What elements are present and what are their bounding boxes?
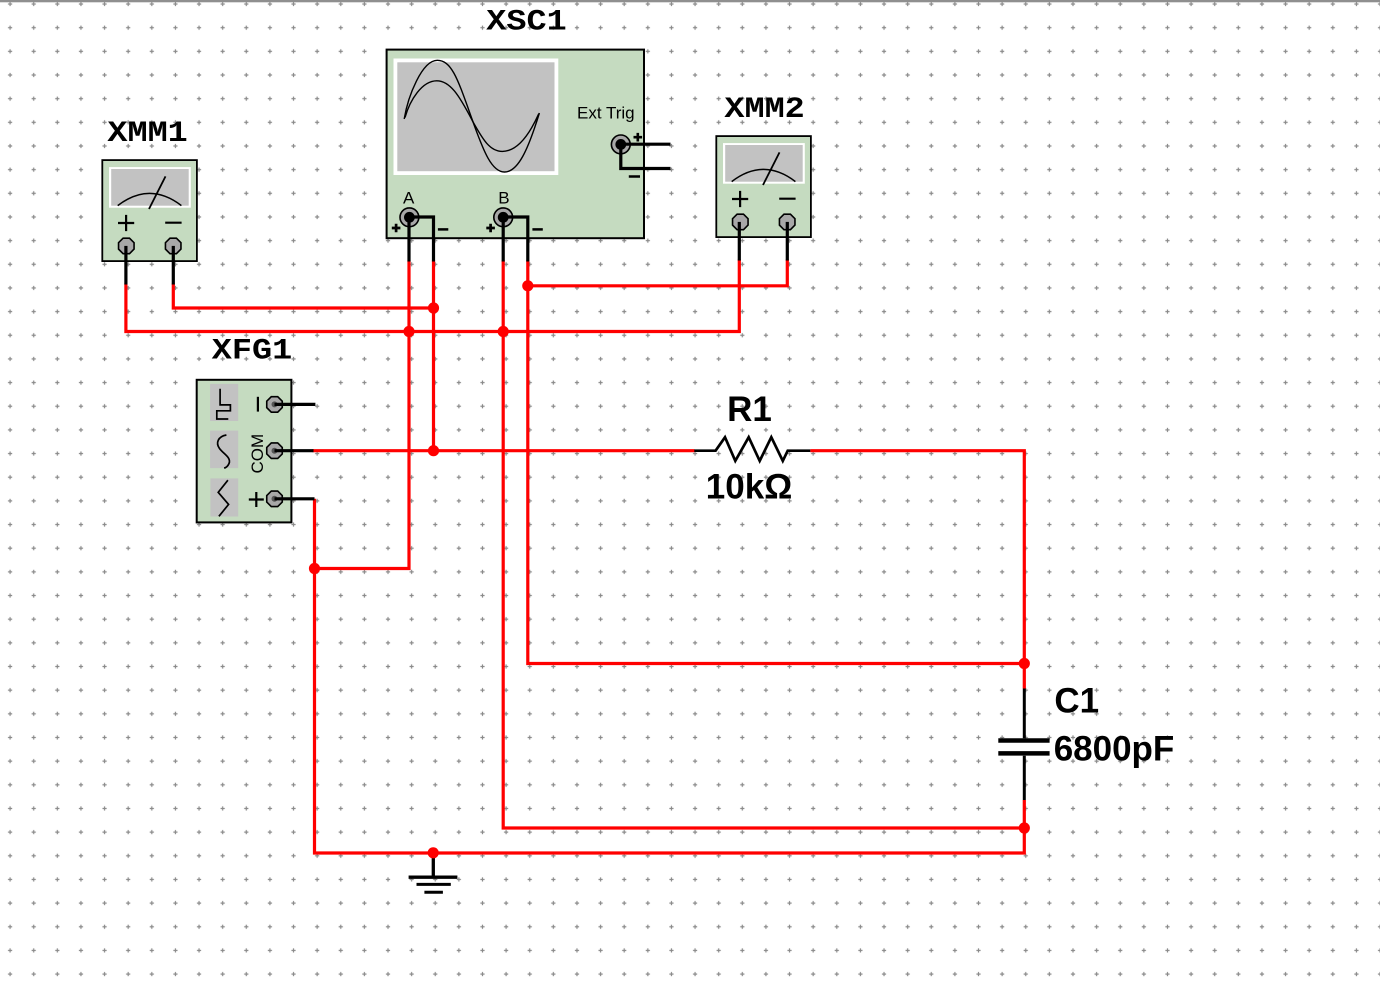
pin XFG1 + xyxy=(275,497,315,500)
svg-text:XFG1: XFG1 xyxy=(212,334,292,368)
wire R1 right to C1 top xyxy=(810,451,1024,689)
pin XMM1 - xyxy=(172,246,175,285)
node A- / COM rail xyxy=(428,445,439,456)
pin Ext Trig + xyxy=(621,143,671,146)
wire XMM1- to A- xyxy=(173,284,433,309)
node A+ / rail xyxy=(403,326,414,337)
node B- / C1 top xyxy=(1019,658,1030,669)
scope trace B xyxy=(405,81,539,152)
pin XFG1 COM xyxy=(275,449,314,452)
svg-text:COM: COM xyxy=(248,434,267,474)
pin XMM2 + xyxy=(738,222,741,261)
terminal B xyxy=(494,208,513,227)
pin Ext Trig - bent xyxy=(621,144,671,168)
wire XFG+ bottom rail to C1 bottom xyxy=(315,499,1025,853)
svg-text:B: B xyxy=(498,189,509,208)
node XMM2- / B- xyxy=(522,280,533,291)
terminal A xyxy=(400,208,419,227)
function generator XFG1 body xyxy=(197,380,292,523)
pin scope B+ xyxy=(502,217,505,262)
node B+ / C1 bottom xyxy=(1019,822,1030,833)
svg-text:XMM2: XMM2 xyxy=(724,93,804,127)
wire scope A- down to COM rail xyxy=(432,261,435,451)
wire XMM2- to B- xyxy=(528,260,788,286)
pin scope A- bent xyxy=(409,217,434,262)
pin XMM2 - xyxy=(786,222,789,261)
pin scope B- bent xyxy=(503,217,528,262)
node XMM1- / A- xyxy=(428,302,439,313)
wire XFG COM to R1 xyxy=(313,449,695,452)
wire XMM1+ to XMM2+ rail xyxy=(126,260,739,332)
terminal XFG1 COM xyxy=(267,443,283,459)
node B+ / rail xyxy=(498,326,509,337)
label plus xyxy=(249,492,264,507)
wire scope B+ down to C1 bottom node xyxy=(503,261,1024,829)
svg-text:Ext Trig: Ext Trig xyxy=(577,104,635,123)
icon triangle wave xyxy=(218,480,228,516)
wire scope B- down to C1 top node xyxy=(528,261,1025,664)
label minus (rotated dash) xyxy=(257,397,259,412)
node ground tap xyxy=(428,847,439,858)
svg-text:6800pF: 6800pF xyxy=(1054,730,1175,769)
oscilloscope XSC1 body xyxy=(387,50,644,239)
svg-text:XSC1: XSC1 xyxy=(486,5,566,39)
multimeter XMM1 body xyxy=(102,160,197,261)
scope trace A xyxy=(404,60,539,172)
icon sine wave xyxy=(218,435,230,468)
pin XMM1 + xyxy=(124,246,127,285)
node XFG+ / A+ xyxy=(309,563,320,574)
terminal Ext Trig xyxy=(611,135,630,154)
icon square wave xyxy=(217,389,231,419)
wire scope A+ down-left to XFG+ node xyxy=(315,261,410,569)
terminal XFG1 + xyxy=(267,491,283,507)
pin XFG1 - xyxy=(275,403,316,406)
svg-text:C1: C1 xyxy=(1054,682,1099,721)
svg-text:XMM1: XMM1 xyxy=(107,117,187,151)
svg-text:A: A xyxy=(403,189,415,208)
svg-text:R1: R1 xyxy=(727,390,772,429)
top window edge xyxy=(0,0,1380,2)
terminal XFG1 - xyxy=(267,397,283,413)
multimeter XMM2 body xyxy=(716,136,811,237)
svg-text:10kΩ: 10kΩ xyxy=(706,467,792,506)
pin scope A+ xyxy=(407,217,410,262)
